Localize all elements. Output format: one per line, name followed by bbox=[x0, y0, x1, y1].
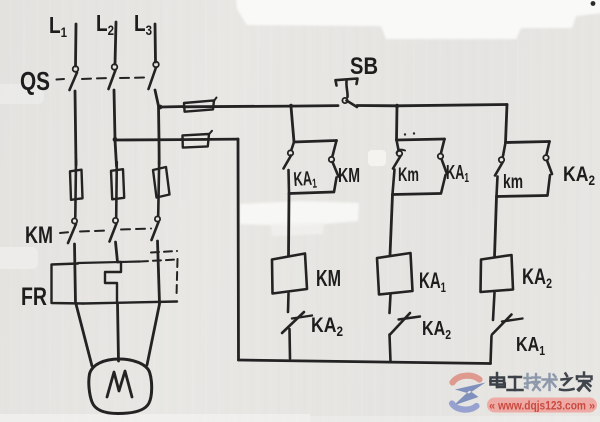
branch3 km lower wire bbox=[497, 177, 498, 197]
SB button contact circle bbox=[342, 98, 347, 103]
SB plunger stem bbox=[346, 81, 347, 97]
branch1 parallel top bar bbox=[294, 141, 337, 143]
wire phase3 through FR bbox=[158, 241, 160, 303]
branch2 KA1 contact leg bbox=[441, 139, 445, 153]
wire L3 drop bbox=[154, 24, 157, 62]
fuse FU3 wire through bbox=[158, 160, 159, 216]
control feed wire from L3 bbox=[161, 105, 184, 108]
fuse FU2 body bbox=[111, 169, 124, 199]
wire L3 to fuse bbox=[157, 106, 160, 164]
fuse FU4 body bbox=[184, 100, 214, 111]
branch2 KM contact leg bbox=[397, 140, 399, 150]
FR box left bracket bbox=[52, 264, 84, 304]
svg-text:FR: FR bbox=[21, 283, 47, 311]
branch3 parallel bottom bar bbox=[497, 196, 548, 197]
control bus wire to SB bbox=[183, 106, 338, 107]
junction L2 control tap bbox=[113, 137, 118, 142]
QS pole 2 contact circle bbox=[112, 64, 118, 70]
branch1 KA1 contact circle bbox=[288, 150, 293, 155]
branch3 KA2 contact circle bbox=[543, 155, 548, 160]
branch1 wire to coil bbox=[287, 194, 290, 257]
watermark char gong bbox=[508, 377, 523, 390]
SB plunger bar bbox=[336, 79, 358, 86]
branch1 KA1 contact blade bbox=[284, 156, 292, 169]
fuse FU4 overshoot bbox=[214, 98, 217, 102]
KM main contact 2 circle bbox=[113, 218, 118, 223]
svg-text:KM: KM bbox=[316, 265, 341, 291]
branch1 KM contact blade bbox=[333, 162, 339, 177]
branch2 ink dots bbox=[404, 133, 406, 135]
control bus wire right of SB bbox=[357, 105, 507, 106]
branch3 wire to coil bbox=[495, 197, 497, 258]
wire L1 to fuse bbox=[75, 91, 76, 165]
white patch left of branch2 bbox=[368, 150, 386, 166]
branch1 wire to bus bbox=[288, 329, 291, 359]
branch3 KA2 lower wire bbox=[548, 175, 551, 196]
QS pole 3 blade bbox=[149, 68, 157, 90]
motor lead 2 bbox=[118, 303, 119, 361]
NC contact KA2 branch1 blade bbox=[282, 312, 304, 333]
QS linkage dashes 1-2 bbox=[82, 78, 108, 79]
branch2 KM lower wire bbox=[393, 170, 395, 195]
NC contact KA1 branch3 blade bbox=[492, 315, 512, 335]
FR box top dashed right bbox=[140, 260, 177, 262]
branch3 wire to bus bbox=[491, 336, 492, 364]
coil KM bbox=[272, 254, 307, 294]
svg-text:SB: SB bbox=[350, 53, 378, 80]
control return vertical bbox=[237, 139, 240, 360]
coil KA1 bbox=[377, 253, 413, 295]
control return wire to corner bbox=[181, 138, 238, 141]
svg-text:Km: Km bbox=[398, 165, 419, 186]
wire L2 to junction bbox=[114, 90, 115, 139]
FR dashed stub upper right bbox=[151, 251, 177, 253]
NC contact KA2 branch2 bar bbox=[399, 317, 421, 320]
branch3 KA2 contact leg bbox=[547, 142, 550, 155]
watermark logo top arc bbox=[453, 376, 480, 383]
fuse FU5 overshoot bbox=[209, 131, 212, 135]
branch2 wire to bus bbox=[390, 335, 391, 362]
motor lead 1 bbox=[76, 304, 92, 366]
faint white patch left edge bbox=[0, 247, 38, 269]
control bottom bus bbox=[239, 360, 491, 364]
ink dot top right bbox=[591, 1, 596, 6]
branch1 parallel bottom bar bbox=[289, 192, 333, 194]
fuse FU2 wire through bbox=[115, 162, 118, 217]
QS pole 3 contact circle bbox=[153, 62, 159, 68]
KM main contact 1 blade bbox=[68, 224, 76, 243]
branch2 wire to coil bbox=[390, 195, 393, 256]
branch1 KA1 lower wire bbox=[287, 170, 290, 194]
fuse FU3 body bbox=[153, 167, 170, 198]
svg-text:«: « bbox=[489, 401, 495, 413]
watermark char dian bbox=[491, 373, 505, 387]
branch2 wire below coil bbox=[390, 295, 391, 314]
branch3 top corner wire bbox=[506, 105, 508, 143]
light band bottom left bbox=[0, 414, 310, 422]
branch1 wire below coil bbox=[287, 294, 290, 313]
wire L3 to control junction bbox=[155, 90, 159, 106]
branch3 km contact blade bbox=[495, 163, 503, 176]
branch1 KM lower wire bbox=[334, 178, 337, 193]
watermark logo bottom arc bbox=[452, 404, 477, 410]
coil KA2 bbox=[481, 255, 514, 292]
branch1 top wire bbox=[291, 107, 294, 143]
watermark red banner bbox=[487, 398, 597, 413]
branch2 top wire bbox=[395, 106, 398, 140]
NC contact KA2 branch2 blade bbox=[390, 313, 410, 335]
FR box right dashed vertical bbox=[177, 259, 178, 296]
branch2 KM contact hook bbox=[397, 150, 406, 153]
QS pole 1 contact circle bbox=[73, 66, 79, 72]
white correction band top bbox=[236, 0, 600, 39]
KM main contact 2 blade bbox=[110, 224, 117, 242]
branch3 parallel top bar bbox=[506, 142, 550, 143]
FR box bottom line bbox=[83, 302, 177, 304]
watermark char jia bbox=[577, 373, 592, 391]
branch1 KA1 contact leg bbox=[292, 142, 295, 150]
motor M body bbox=[89, 359, 152, 414]
branch2 parallel top bar bbox=[397, 139, 445, 140]
branch2 KM contact circle bbox=[397, 151, 402, 156]
branch2 KM contact blade bbox=[393, 156, 401, 169]
QS linkage dashes 2-3 bbox=[120, 77, 146, 80]
FR box top line bbox=[78, 262, 140, 264]
wire L2 drop bbox=[115, 22, 116, 64]
svg-text:km: km bbox=[503, 172, 523, 193]
wire L1 drop bbox=[74, 24, 77, 66]
QS pole 2 blade bbox=[109, 70, 116, 89]
branch1 KM contact circle bbox=[329, 157, 334, 162]
wire L2 to fuse bbox=[115, 140, 117, 166]
branch3 km contact circle bbox=[499, 157, 504, 162]
junction L3 control tap bbox=[158, 105, 163, 110]
KM main contact 3 circle bbox=[155, 216, 160, 221]
KM linkage dash left bbox=[60, 231, 68, 234]
wire phase2 to heater bbox=[116, 242, 118, 262]
svg-text:»: » bbox=[589, 401, 595, 413]
fuse FU1 wire through bbox=[74, 160, 77, 217]
white patch mid (over branch1 area) bbox=[240, 201, 359, 226]
KM linkage dashes 2-3 bbox=[121, 229, 151, 230]
branch2 KA1 lower wire bbox=[441, 175, 446, 194]
motor letter M bbox=[107, 371, 132, 397]
svg-text:KM: KM bbox=[338, 165, 360, 187]
NC contact KA2 branch1 bar bbox=[292, 316, 312, 319]
junction branch1 tap bbox=[289, 104, 293, 108]
QS pole 1 blade bbox=[70, 73, 78, 91]
watermark char shu bbox=[543, 374, 557, 390]
branch3 KA2 contact blade bbox=[547, 161, 552, 175]
control return feed from L2 bbox=[116, 138, 182, 141]
svg-text:www.dqjs123.com: www.dqjs123.com bbox=[497, 399, 586, 413]
svg-text:KM: KM bbox=[25, 222, 53, 249]
QS linkage dash left bbox=[57, 78, 65, 81]
KM main contact 3 blade bbox=[152, 222, 159, 240]
watermark logo bolt bbox=[454, 383, 486, 406]
branch2 parallel bottom bar bbox=[393, 194, 440, 195]
watermark char ji bbox=[525, 374, 541, 390]
KM main contact 1 circle bbox=[72, 218, 77, 223]
fuse FU5 body bbox=[183, 134, 210, 148]
SB button blade bbox=[347, 101, 358, 108]
svg-text:QS: QS bbox=[20, 66, 50, 96]
wire phase1 through FR bbox=[75, 244, 76, 303]
branch1 KM contact leg bbox=[333, 141, 337, 157]
watermark char zhi bbox=[560, 374, 574, 391]
branch3 wire below coil bbox=[493, 293, 495, 321]
fuse FU1 body bbox=[70, 170, 83, 200]
branch3 km contact leg bbox=[503, 143, 506, 157]
NC contact KA1 branch3 bar bbox=[502, 319, 523, 322]
FR heater zigzag phase2 bbox=[105, 262, 121, 303]
motor lead 3 bbox=[147, 304, 160, 365]
branch2 KA1 contact circle bbox=[438, 154, 443, 159]
branch2 KA1 contact blade bbox=[442, 159, 448, 174]
KM linkage dashes 1-2 bbox=[80, 231, 108, 232]
junction branch2 tap bbox=[395, 104, 399, 108]
